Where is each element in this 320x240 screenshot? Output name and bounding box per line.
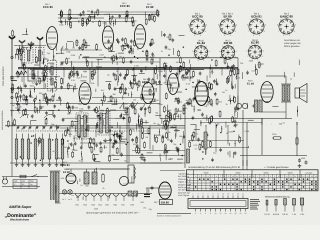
wire stub — [159, 70, 161, 76]
wire stub — [161, 118, 163, 124]
resistor — [216, 98, 218, 99]
wire stub — [11, 110, 13, 116]
wire stub — [152, 58, 154, 61]
wire stub — [104, 145, 106, 149]
resistor — [157, 10, 159, 11]
capacitor — [193, 97, 195, 99]
capacitor — [74, 142, 76, 144]
wire — [193, 106, 195, 112]
capacitor — [186, 101, 188, 103]
tuning gang arrow 1 — [20, 114, 29, 118]
wire — [74, 84, 76, 90]
tube base ticks — [197, 20, 199, 22]
resistor — [91, 70, 93, 71]
wire stub — [77, 181, 79, 185]
wire stub — [135, 123, 137, 130]
wire stub — [20, 71, 22, 76]
junction — [113, 135, 114, 136]
capacitor — [199, 71, 201, 73]
potentiometer volume — [204, 132, 207, 149]
wire — [113, 159, 119, 161]
wire stub — [190, 64, 192, 68]
wire — [230, 98, 232, 104]
wire — [72, 86, 74, 92]
trimmer cap CT4 — [36, 126, 38, 127]
wire stub — [227, 152, 229, 155]
wire stub — [131, 49, 133, 54]
wire — [129, 46, 131, 52]
wire drop low — [195, 126, 197, 140]
capacitor C feedback — [290, 131, 292, 133]
wire — [123, 44, 129, 46]
switch pin top — [202, 196, 204, 199]
capacitor — [177, 148, 179, 150]
capacitor — [116, 38, 118, 40]
capacitor — [165, 64, 167, 66]
capacitor — [119, 73, 121, 75]
FM tuner box L2 — [36, 48, 45, 64]
wire — [89, 17, 95, 19]
resistor — [106, 107, 108, 108]
resistor — [121, 83, 123, 84]
resistor — [141, 93, 143, 94]
resistor — [126, 10, 128, 11]
wire stub — [95, 89, 97, 92]
wire — [158, 66, 164, 68]
switch pin bottom — [240, 209, 242, 212]
wire — [234, 141, 236, 147]
junction — [26, 99, 27, 100]
resistor R output — [296, 137, 298, 139]
wire stub — [232, 152, 234, 158]
wire — [176, 91, 182, 93]
capacitor — [144, 158, 146, 160]
tube base Roe5 EABC80 pinout — [279, 19, 294, 34]
dial lamp La1 — [62, 190, 66, 194]
wire right drop 2 — [246, 122, 248, 166]
wire — [73, 72, 79, 74]
wire — [272, 106, 278, 108]
resistor — [178, 50, 180, 51]
resistor — [163, 120, 165, 121]
wire y170 seg — [160, 170, 185, 172]
capacitor — [130, 39, 132, 41]
resistor — [255, 68, 257, 69]
resistor — [61, 138, 63, 139]
capacitor — [38, 139, 40, 141]
heater winding Rö5 — [105, 194, 111, 197]
power transformer T1 — [51, 172, 54, 202]
wire — [115, 19, 117, 25]
resistor — [131, 82, 133, 83]
wire — [121, 138, 127, 140]
capacitor — [124, 76, 126, 78]
resistor — [97, 9, 99, 10]
wire drop low — [149, 126, 151, 150]
resistor — [175, 108, 177, 109]
bus emphasize — [18, 67, 238, 69]
wire AGC rail — [5, 125, 185, 127]
capacitor — [82, 10, 84, 12]
wire — [138, 119, 140, 125]
wire drop — [177, 68, 179, 81]
trimmer C6 — [61, 61, 63, 63]
wire vert x262 redo — [261, 118, 263, 155]
wire — [174, 129, 180, 131]
resistor — [164, 62, 166, 63]
wire stub — [162, 126, 164, 129]
wire vert x238 — [237, 58, 239, 110]
wire — [231, 81, 233, 87]
ground L17 — [56, 163, 58, 165]
switch strip 74 — [188, 199, 248, 209]
capacitor — [114, 139, 116, 141]
wire stub — [179, 83, 181, 87]
capacitor — [176, 146, 178, 148]
capacitor — [80, 146, 82, 148]
resistor — [115, 74, 117, 75]
resistor — [39, 77, 41, 78]
wire y110 seg — [10, 110, 126, 112]
wire — [144, 111, 146, 117]
resistor — [116, 147, 118, 148]
wire stub — [210, 65, 212, 70]
capacitor — [213, 79, 215, 81]
capacitor — [124, 91, 126, 93]
resistor — [93, 154, 95, 155]
resistor — [140, 120, 142, 121]
junction — [35, 98, 36, 99]
switch pin bottom — [205, 209, 207, 212]
resistor — [93, 69, 95, 70]
capacitor — [131, 104, 133, 106]
wire right drop 1 — [242, 110, 244, 166]
wire stub — [182, 138, 184, 143]
resistor — [234, 96, 236, 97]
capacitor — [67, 128, 69, 130]
wire — [221, 126, 223, 132]
wire stub — [55, 125, 57, 131]
resistor — [95, 107, 97, 108]
wire stub — [152, 145, 154, 150]
wire y147 right seg — [200, 147, 297, 149]
resistor — [230, 69, 232, 70]
wire stub — [180, 114, 182, 120]
wire vert x127 — [126, 108, 128, 163]
wire stub — [81, 45, 83, 48]
capacitor — [31, 114, 33, 116]
wire stub — [177, 149, 179, 155]
junction — [15, 54, 16, 55]
wire stub — [296, 106, 298, 112]
capacitor bold block — [144, 193, 150, 195]
junction — [168, 55, 169, 56]
electrolytic C100 a — [84, 172, 89, 184]
wire — [251, 127, 253, 133]
capacitor — [227, 65, 229, 67]
junction — [31, 136, 32, 137]
resistor — [23, 94, 25, 95]
heater winding Rö1 — [75, 194, 81, 197]
wire — [110, 109, 116, 111]
resistor — [146, 50, 148, 51]
wire — [33, 87, 35, 93]
capacitor — [54, 104, 56, 106]
resistor — [148, 14, 150, 15]
capacitor — [234, 123, 236, 125]
tuner coil L17 — [55, 139, 58, 159]
resistor — [155, 67, 157, 68]
junction — [94, 160, 95, 161]
junction — [67, 140, 68, 141]
wire stub — [50, 76, 52, 82]
capacitor — [58, 96, 60, 98]
resistor — [183, 108, 185, 109]
wire stub — [95, 168, 97, 172]
capacitor — [206, 133, 208, 135]
wire stub — [145, 120, 147, 123]
legend resistor 0,25 W — [275, 199, 277, 212]
resistor — [133, 78, 135, 79]
wire stub — [60, 15, 62, 21]
wire — [176, 110, 182, 112]
wire x286 drop — [285, 102, 287, 119]
junction — [192, 82, 193, 83]
junction — [138, 115, 139, 116]
FM tuner box L1 — [25, 48, 34, 64]
wire B+ bus — [18, 67, 238, 69]
wire stub — [133, 105, 135, 109]
rectifier Roe8 EZ80 — [66, 174, 76, 184]
capacitor — [136, 144, 138, 146]
wire — [119, 141, 125, 143]
capacitor — [258, 154, 260, 156]
wire stub — [131, 176, 133, 183]
resistor — [273, 146, 275, 147]
wire stub — [164, 66, 166, 72]
resistor — [141, 132, 143, 133]
wire stub — [177, 114, 179, 118]
tuner coil L12 — [21, 139, 24, 159]
resistor — [189, 98, 191, 99]
wire — [16, 73, 22, 75]
wire drop — [117, 68, 119, 79]
wire stub — [67, 127, 69, 134]
speaker LS — [295, 88, 300, 98]
resistor — [67, 83, 69, 84]
heater winding Rö6 — [113, 194, 119, 197]
heater winding Rö7 — [121, 194, 127, 197]
switch pin top — [192, 196, 194, 199]
wire stub — [26, 96, 28, 99]
wire — [164, 149, 170, 151]
wire — [43, 59, 45, 65]
antenna 3 — [30, 45, 32, 49]
wire — [178, 68, 180, 74]
wire stub — [60, 98, 62, 105]
resistor — [165, 114, 167, 115]
switch pin bottom — [230, 209, 232, 212]
white patch right-mid — [249, 125, 319, 161]
junction — [127, 142, 128, 143]
heater winding Rö8 — [130, 194, 136, 197]
wire stub — [144, 12, 146, 19]
wire — [17, 54, 19, 60]
resistor — [210, 115, 212, 116]
wire stub — [128, 93, 130, 96]
capacitor heater bypass — [151, 186, 153, 188]
resistor — [145, 18, 147, 19]
junction — [220, 132, 221, 133]
resistor — [91, 146, 93, 147]
capacitor — [114, 87, 116, 89]
capacitor — [77, 73, 79, 75]
resistor — [202, 140, 204, 141]
capacitor — [70, 142, 72, 144]
capacitor — [72, 105, 74, 107]
wire — [94, 11, 96, 17]
resistor — [23, 109, 25, 110]
capacitor C boost — [252, 105, 254, 107]
wire vert x297 redo — [296, 122, 298, 156]
resistor — [86, 60, 88, 61]
wire stub — [167, 105, 169, 111]
wire drop — [231, 68, 233, 89]
wire — [34, 64, 40, 66]
capacitor — [176, 72, 178, 74]
magic eye Roe7 EM80 — [159, 182, 171, 199]
tube base Roe8 EZ80 pinout — [248, 45, 262, 59]
trimmer C8 — [69, 72, 71, 74]
resistor — [127, 69, 129, 70]
resistor — [199, 143, 201, 144]
wire — [100, 112, 106, 114]
resistor R dropper — [102, 173, 104, 175]
wire — [211, 101, 213, 107]
capacitor — [76, 70, 78, 72]
legend resistor 2 W — [301, 199, 303, 212]
resistor — [177, 97, 179, 98]
junction — [137, 58, 138, 59]
wire — [87, 14, 93, 16]
resistor — [153, 15, 155, 16]
capacitor — [109, 138, 111, 140]
wire stub — [79, 178, 81, 181]
resistor — [45, 118, 47, 119]
junction — [33, 135, 34, 136]
resistor — [165, 123, 167, 124]
resistor — [38, 137, 40, 138]
resistor — [132, 16, 134, 17]
wire stub — [206, 76, 208, 82]
capacitor — [198, 79, 200, 81]
resistor — [7, 120, 9, 121]
IF coil pair 2b — [106, 113, 109, 133]
resistor — [138, 80, 140, 81]
capacitor — [47, 98, 49, 100]
resistor — [136, 146, 138, 147]
wire stub — [91, 61, 93, 68]
wire stub — [136, 87, 138, 91]
wire stub — [168, 120, 170, 123]
electrolytic C50+50 b — [242, 103, 247, 108]
wire table feed 1 — [242, 160, 244, 170]
resistor 220k box — [272, 137, 274, 139]
junction — [202, 151, 203, 152]
capacitor — [111, 15, 113, 17]
resistor — [165, 132, 167, 133]
capacitor — [177, 99, 179, 101]
wire stub — [138, 113, 140, 118]
wire y155 seg — [108, 155, 185, 157]
capacitor — [109, 129, 111, 131]
IF coil pair 2a — [100, 113, 103, 133]
resistor — [165, 92, 167, 93]
wire tuner ground bus — [10, 162, 182, 164]
capacitor — [30, 41, 32, 43]
wire y150 seg — [132, 150, 185, 152]
wire B+ rail top — [82, 57, 238, 59]
wire gang dashed — [16, 130, 150, 132]
resistor — [22, 46, 24, 47]
wire stub — [298, 60, 300, 65]
wire stub — [234, 111, 236, 116]
resistor — [54, 81, 56, 82]
wire — [131, 75, 137, 77]
wire — [123, 114, 129, 116]
wire stub — [61, 48, 63, 54]
triode Roe1a ECC85 — [46, 27, 57, 50]
resistor — [96, 43, 98, 44]
wire — [215, 79, 217, 85]
capacitor — [97, 114, 99, 116]
wire — [105, 80, 111, 82]
wire stub — [149, 14, 151, 20]
wire stub — [66, 43, 68, 49]
wire y118 seg left — [62, 117, 126, 119]
resistor — [66, 102, 68, 103]
junction — [132, 69, 133, 70]
wire — [170, 126, 176, 128]
junction — [58, 109, 59, 110]
wire — [165, 84, 171, 86]
capacitor — [127, 45, 129, 47]
resistor — [109, 17, 111, 18]
wire stub — [67, 154, 69, 158]
capacitor — [170, 83, 172, 85]
resistor — [210, 99, 212, 100]
switch pin top — [232, 196, 234, 199]
capacitor — [25, 98, 27, 100]
wire — [194, 128, 200, 130]
capacitor — [61, 85, 63, 87]
capacitor — [29, 94, 31, 96]
wire stub — [79, 96, 81, 102]
wire — [255, 64, 257, 70]
wire stub — [197, 79, 199, 84]
wire — [118, 52, 124, 54]
junction — [202, 158, 203, 159]
capacitor — [120, 114, 122, 116]
junction — [142, 51, 143, 52]
resistor — [17, 95, 19, 96]
wire stub — [169, 87, 171, 92]
resistor — [224, 57, 226, 58]
wire right vert speaker — [296, 122, 298, 158]
capacitor — [132, 138, 134, 140]
capacitor — [125, 87, 127, 89]
junction — [225, 47, 226, 48]
